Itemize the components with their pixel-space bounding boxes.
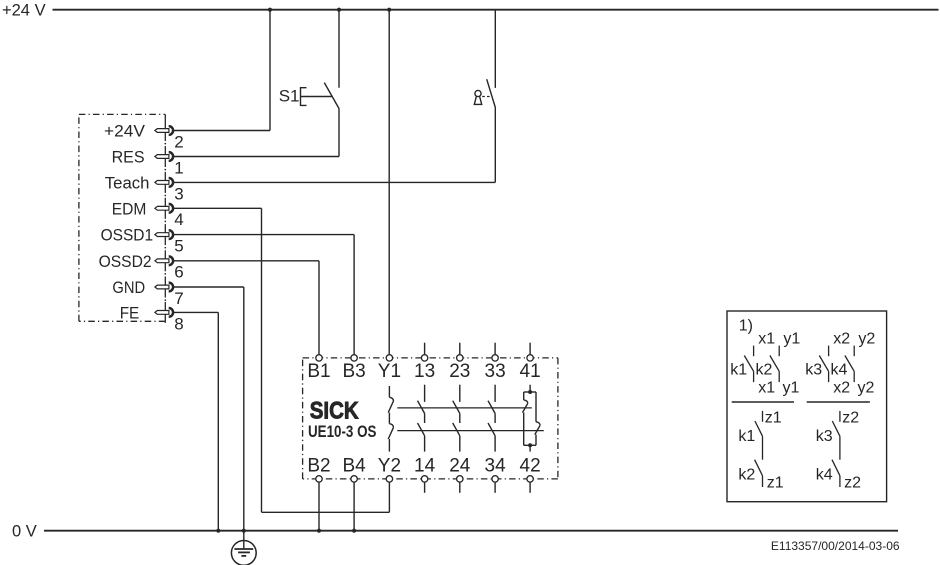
svg-text:B1: B1 xyxy=(307,361,330,382)
svg-text:7: 7 xyxy=(174,289,183,308)
svg-text:z1: z1 xyxy=(767,474,784,491)
svg-text:33: 33 xyxy=(485,361,506,382)
svg-text:B3: B3 xyxy=(342,361,365,382)
svg-text:x1: x1 xyxy=(758,380,775,397)
svg-text:k1: k1 xyxy=(730,362,747,379)
svg-text:6: 6 xyxy=(174,263,183,282)
svg-text:8: 8 xyxy=(174,314,183,333)
svg-text:x1: x1 xyxy=(758,331,775,348)
svg-text:41: 41 xyxy=(520,361,541,382)
svg-text:x2: x2 xyxy=(833,380,850,397)
svg-text:OSSD1: OSSD1 xyxy=(101,227,154,245)
svg-text:B2: B2 xyxy=(307,455,330,476)
svg-text:k2: k2 xyxy=(756,362,773,379)
svg-text:y1: y1 xyxy=(783,331,800,348)
svg-text:3: 3 xyxy=(174,184,183,203)
svg-text:k4: k4 xyxy=(816,467,833,484)
svg-text:Teach: Teach xyxy=(105,174,150,192)
svg-text:k3: k3 xyxy=(816,428,833,445)
svg-text:24: 24 xyxy=(449,455,471,476)
svg-text:1): 1) xyxy=(739,317,753,334)
svg-text:z1: z1 xyxy=(765,410,782,427)
svg-text:y2: y2 xyxy=(858,380,875,397)
svg-text:k4: k4 xyxy=(831,362,848,379)
svg-text:k3: k3 xyxy=(805,362,822,379)
svg-text:13: 13 xyxy=(414,361,435,382)
svg-text:FE: FE xyxy=(120,304,140,322)
svg-text:0 V: 0 V xyxy=(12,523,37,541)
svg-text:RES: RES xyxy=(112,149,145,167)
svg-text:S1: S1 xyxy=(279,87,300,106)
svg-text:SICK: SICK xyxy=(310,398,359,425)
svg-text:4: 4 xyxy=(174,210,183,229)
svg-text:k2: k2 xyxy=(738,467,755,484)
svg-text:E113357/00/2014-03-06: E113357/00/2014-03-06 xyxy=(771,539,900,553)
svg-text:5: 5 xyxy=(174,237,183,256)
svg-text:B4: B4 xyxy=(342,455,366,476)
svg-text:GND: GND xyxy=(112,279,145,297)
svg-text:EDM: EDM xyxy=(112,200,147,218)
svg-text:z2: z2 xyxy=(844,474,861,491)
svg-text:34: 34 xyxy=(485,455,507,476)
svg-text:z2: z2 xyxy=(842,410,859,427)
svg-text:42: 42 xyxy=(520,455,541,476)
svg-text:23: 23 xyxy=(449,361,470,382)
svg-text:OSSD2: OSSD2 xyxy=(99,253,152,271)
svg-text:+24V: +24V xyxy=(104,123,145,141)
svg-text:UE10-3 OS: UE10-3 OS xyxy=(308,423,377,441)
svg-text:2: 2 xyxy=(174,132,183,151)
svg-text:k1: k1 xyxy=(738,428,755,445)
svg-text:x2: x2 xyxy=(833,331,850,348)
svg-text:+24 V: +24 V xyxy=(2,1,46,19)
svg-text:y2: y2 xyxy=(858,331,875,348)
svg-text:1: 1 xyxy=(174,158,183,177)
svg-text:14: 14 xyxy=(414,455,436,476)
svg-text:Y2: Y2 xyxy=(378,455,401,476)
svg-text:y1: y1 xyxy=(783,380,800,397)
svg-text:Y1: Y1 xyxy=(378,361,401,382)
